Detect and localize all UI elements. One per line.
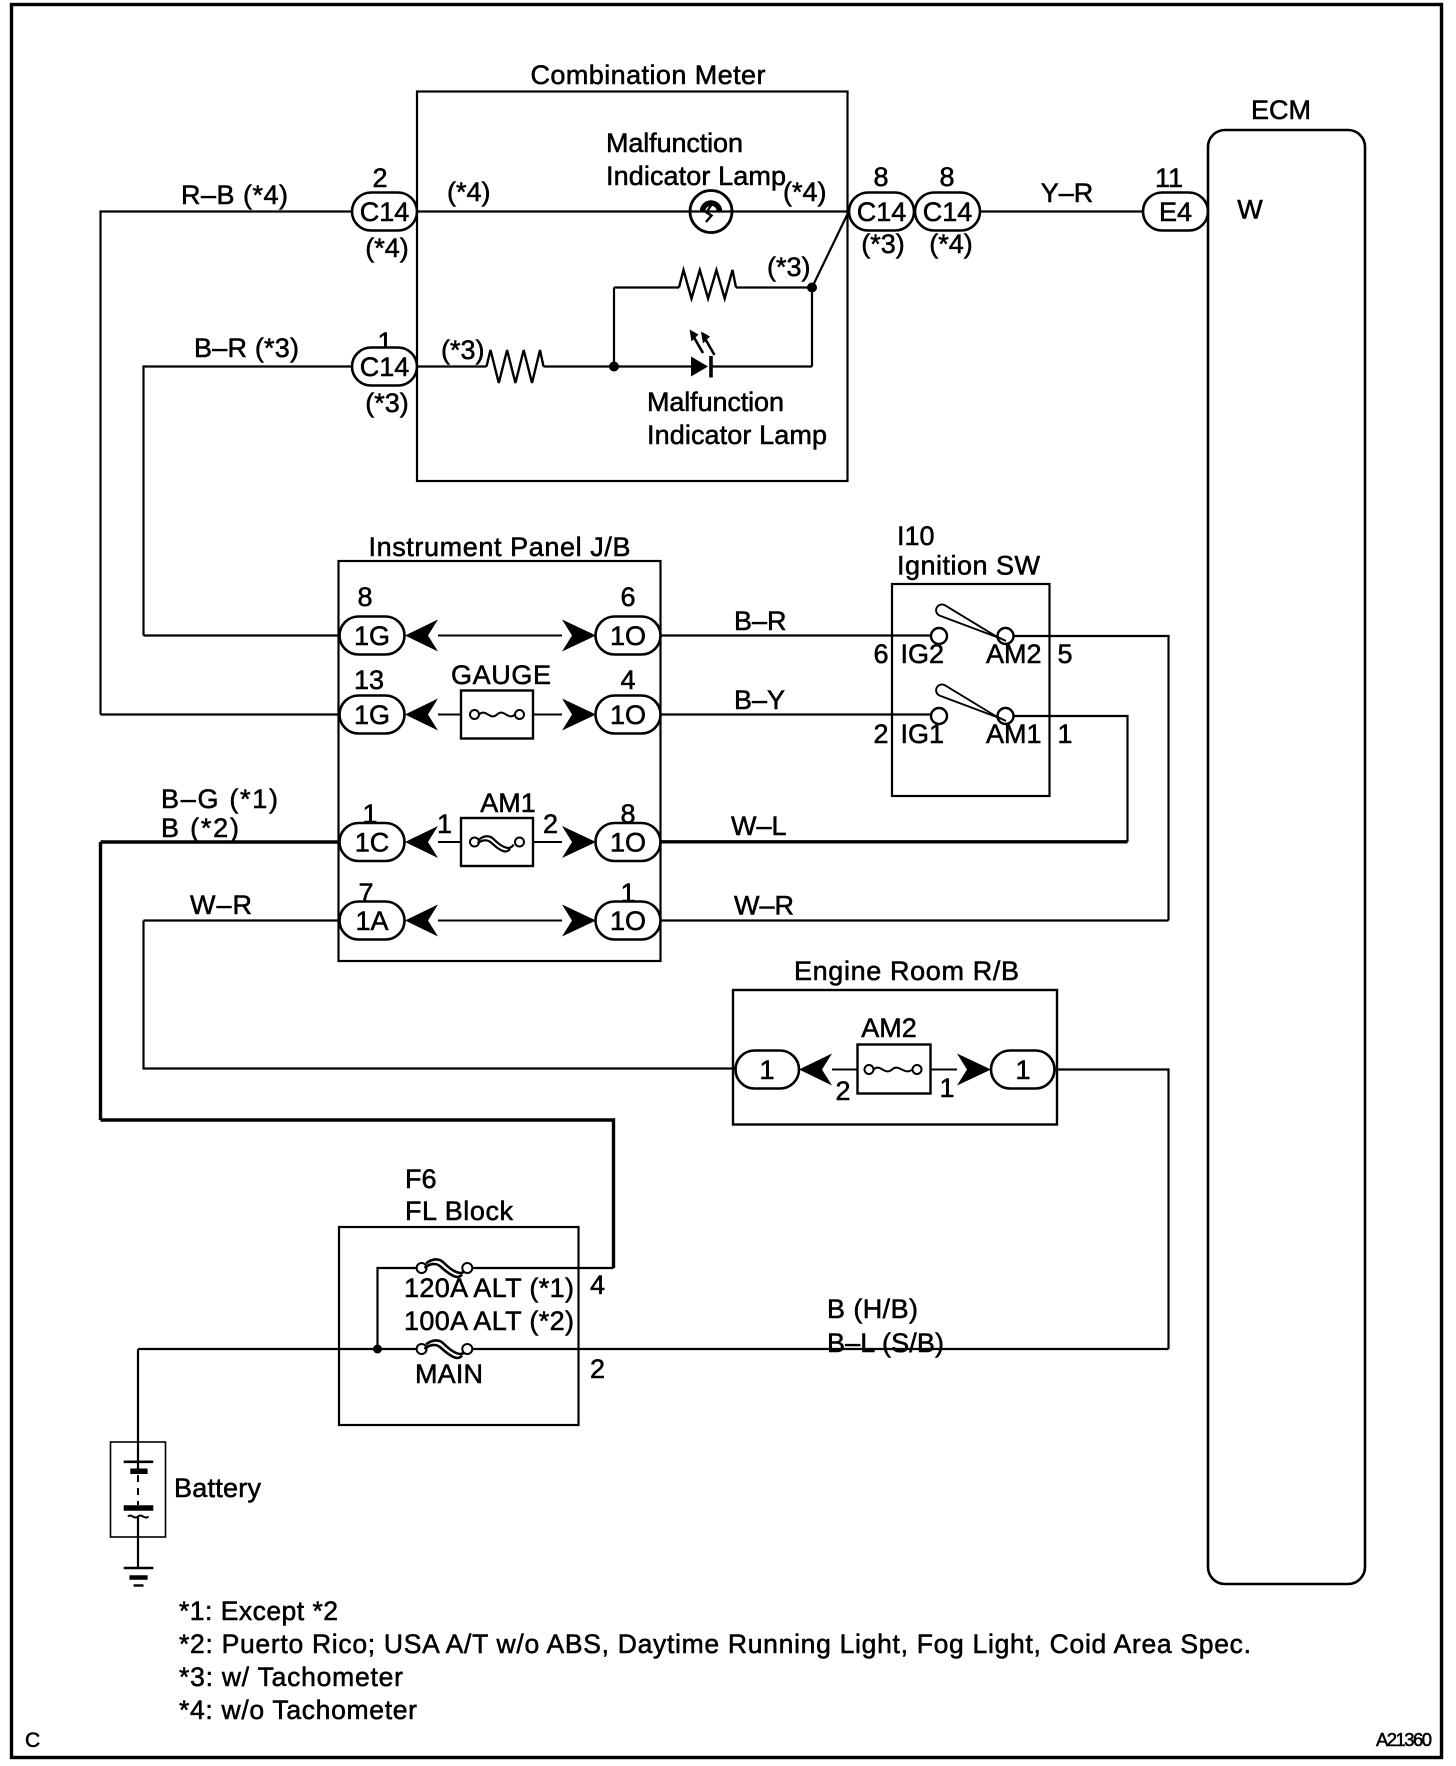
svg-text:E4: E4 [1159, 197, 1192, 227]
ground [124, 1568, 154, 1586]
wire resistor to LED [544, 365, 692, 367]
svg-text:8: 8 [357, 582, 372, 612]
row 3: wires around AM1 fuse [438, 841, 461, 843]
svg-text:C14: C14 [360, 352, 410, 382]
wire MAIN to B-L junction [472, 1348, 1168, 1350]
svg-text:13: 13 [354, 665, 384, 695]
fusible link MAIN [417, 1340, 473, 1358]
instrument panel J/B box [339, 532, 661, 961]
engine room R/B box [733, 956, 1057, 1125]
svg-text:Malfunction: Malfunction [606, 128, 743, 158]
wire row3 right W-L (bold) [661, 840, 1128, 843]
connector E4 pin 11 [1143, 193, 1208, 231]
fusible link AM1 [437, 788, 558, 866]
svg-text:*3: w/ Tachometer: *3: w/ Tachometer [179, 1662, 403, 1692]
svg-text:AM1: AM1 [986, 719, 1042, 749]
arrow left row4 [405, 905, 438, 937]
connector 1G pin 13 [340, 696, 405, 734]
svg-text:2: 2 [543, 809, 558, 839]
connector 1G pin 8 [340, 617, 405, 655]
svg-text:C14: C14 [923, 197, 973, 227]
svg-text:4: 4 [590, 1270, 605, 1300]
arrow right row3 [562, 826, 596, 858]
connector 1 (left) [736, 1051, 800, 1089]
svg-text:1O: 1O [610, 621, 646, 651]
wire row1 right B-R to ignition SW [661, 634, 932, 636]
svg-text:*4: w/o Tachometer: *4: w/o Tachometer [179, 1695, 417, 1725]
wire W-R down to engine room R/B [144, 921, 736, 1069]
lamp bulb symbol (MIL *4) [690, 191, 732, 233]
wire R-B row (left feed to C14 pin 2) [101, 212, 353, 715]
wire vertical to parallel branch (left) [613, 288, 615, 367]
svg-text:2: 2 [835, 1076, 850, 1106]
wire lamp row inside meter [417, 210, 849, 212]
svg-text:IG1: IG1 [901, 719, 945, 749]
resistor (parallel bypass) [679, 270, 736, 299]
svg-text:(*3): (*3) [767, 252, 811, 282]
wire row2 right B-Y to ignition SW [661, 713, 932, 715]
svg-text:11: 11 [1155, 163, 1183, 193]
svg-text:FL Block: FL Block [405, 1196, 514, 1226]
battery [111, 1442, 166, 1568]
svg-text:1O: 1O [610, 700, 646, 730]
svg-text:2: 2 [590, 1354, 605, 1384]
contact AM2 [998, 628, 1014, 644]
wire B-R row (left feed to C14 pin 1) [144, 367, 353, 636]
svg-text:Instrument Panel J/B: Instrument Panel J/B [369, 532, 631, 562]
svg-text:Battery: Battery [174, 1473, 262, 1503]
svg-text:1: 1 [939, 1073, 954, 1103]
wire into resistor row [417, 365, 487, 367]
svg-text:C14: C14 [857, 197, 907, 227]
arrow right row4 [562, 905, 596, 937]
svg-text:6: 6 [620, 582, 635, 612]
svg-text:5: 5 [1057, 639, 1072, 669]
svg-text:Y–R: Y–R [1041, 178, 1094, 208]
wire row2 left exit [101, 713, 340, 715]
svg-text:Indicator Lamp: Indicator Lamp [606, 161, 786, 191]
junction node [609, 362, 619, 372]
connector 1O pin 8 [596, 823, 661, 861]
wire row4 left exit [144, 919, 340, 921]
svg-text:(*3): (*3) [861, 229, 905, 259]
fuse AM2 [858, 1013, 931, 1094]
contact IG2 [931, 628, 947, 644]
svg-text:1C: 1C [355, 828, 390, 858]
wire row1 left exit [144, 634, 340, 636]
svg-text:1: 1 [1015, 1055, 1030, 1085]
svg-text:(*3): (*3) [441, 335, 485, 365]
svg-text:B–L (S/B): B–L (S/B) [827, 1328, 944, 1358]
svg-text:1A: 1A [355, 906, 388, 936]
label Malfunction Indicator Lamp (bottom) [647, 387, 827, 450]
switch lever AM2-IG2 [936, 604, 1006, 641]
svg-text:F6: F6 [405, 1164, 437, 1194]
arrow left [799, 1054, 832, 1086]
arrow left row1 [405, 620, 438, 652]
wire AM1 contact down to W-L [1014, 716, 1128, 842]
svg-text:MAIN: MAIN [415, 1359, 483, 1389]
junction node MAIN/ALT [373, 1345, 382, 1354]
LED malfunction indicator lamp (*3) [690, 330, 715, 378]
svg-text:8: 8 [873, 162, 888, 192]
svg-text:120A ALT (*1): 120A ALT (*1) [404, 1273, 574, 1303]
svg-text:2: 2 [873, 719, 888, 749]
ECM box [1208, 95, 1365, 1584]
label Malfunction Indicator Lamp (top) [606, 128, 786, 191]
svg-text:Malfunction: Malfunction [647, 387, 784, 417]
connector 1 (right) [991, 1051, 1055, 1089]
svg-text:Combination Meter: Combination Meter [531, 60, 766, 90]
wire AM2 contact down to W-R [1014, 636, 1169, 921]
svg-text:1: 1 [759, 1055, 774, 1085]
connector C14 pin 1 [352, 348, 417, 386]
wire vertical right branch [811, 288, 813, 367]
svg-text:A21360: A21360 [1376, 1729, 1432, 1750]
row 1: wire 1G-1O internal [438, 635, 562, 637]
svg-text:(*4): (*4) [929, 229, 973, 259]
wire right exit down to B-L feed [1055, 1070, 1169, 1350]
connector C14 pin 2 [352, 193, 417, 231]
arrow left row2 [405, 699, 438, 731]
wire LED to right branch [711, 365, 812, 367]
svg-text:1G: 1G [354, 700, 390, 730]
svg-text:B–G (*1): B–G (*1) [161, 784, 278, 814]
svg-text:W–R: W–R [190, 890, 252, 920]
connector 1O pin 1 [596, 902, 661, 940]
FL block F6 [339, 1164, 579, 1425]
wire B feed horizontal to FL block (bold) [101, 1120, 614, 1268]
svg-text:AM1: AM1 [480, 788, 536, 818]
svg-text:(*4): (*4) [783, 177, 827, 207]
svg-text:6: 6 [873, 639, 888, 669]
connector C14 pin 8 (*4) [915, 193, 980, 231]
svg-text:(*4): (*4) [365, 233, 409, 263]
svg-text:Indicator Lamp: Indicator Lamp [647, 420, 827, 450]
resistor R (series, *3) [487, 350, 544, 383]
svg-text:*2: Puerto Rico; USA A/T w/o A: *2: Puerto Rico; USA A/T w/o ABS, Daytim… [179, 1629, 1251, 1659]
combination meter box [417, 60, 848, 481]
arrow right row1 [562, 620, 596, 652]
svg-text:B–R: B–R [734, 606, 787, 636]
svg-text:AM2: AM2 [986, 639, 1042, 669]
ignition SW I10 box [892, 521, 1050, 796]
svg-text:I10: I10 [897, 521, 935, 551]
contact IG1 [931, 708, 947, 724]
svg-text:B–R (*3): B–R (*3) [194, 333, 299, 363]
switch lever AM1-IG1 [936, 684, 1006, 721]
wire parallel branch top right [736, 286, 812, 288]
svg-text:4: 4 [620, 665, 635, 695]
svg-text:IG2: IG2 [901, 639, 945, 669]
wire row3 left exit (B feed, bold) [101, 840, 340, 843]
arrow right [957, 1054, 991, 1086]
svg-text:B–Y: B–Y [734, 685, 785, 715]
wire diagonal node to C14 pin 8 [812, 213, 848, 288]
svg-text:GAUGE: GAUGE [451, 660, 551, 690]
svg-text:1O: 1O [610, 906, 646, 936]
svg-text:Ignition SW: Ignition SW [897, 551, 1041, 581]
connector C14 pin 8 (*3) [849, 193, 914, 231]
svg-text:1O: 1O [610, 828, 646, 858]
svg-text:1G: 1G [354, 621, 390, 651]
wire battery feed to MAIN [138, 1348, 417, 1350]
connector 1O pin 4 [596, 696, 661, 734]
svg-text:1: 1 [1057, 719, 1072, 749]
wire vertical B feed (bold) [99, 842, 102, 1120]
row 4: wire 1A-1O internal [438, 920, 562, 922]
svg-text:B (H/B): B (H/B) [827, 1294, 918, 1324]
svg-text:R–B (*4): R–B (*4) [181, 180, 288, 210]
svg-text:C14: C14 [360, 197, 410, 227]
svg-text:8: 8 [939, 162, 954, 192]
svg-text:ECM: ECM [1251, 95, 1311, 125]
wire parallel branch top left [614, 286, 679, 288]
svg-text:Engine Room R/B: Engine Room R/B [794, 956, 1019, 986]
connector 1A pin 7 [340, 902, 405, 940]
svg-text:(*3): (*3) [365, 388, 409, 418]
svg-text:B (*2): B (*2) [161, 813, 239, 843]
wire Y-R [980, 210, 1143, 212]
connector 1O pin 6 [596, 617, 661, 655]
arrow left row3 [405, 826, 438, 858]
svg-text:(*4): (*4) [447, 177, 491, 207]
connector 1C pin 1 [340, 823, 405, 861]
arrow right row2 [562, 699, 596, 731]
wire to AM2 fuse [832, 1069, 858, 1071]
svg-text:AM2: AM2 [861, 1013, 917, 1043]
fusible link 120A/100A ALT [378, 1259, 614, 1349]
svg-text:C: C [25, 1729, 40, 1752]
contact AM1 [998, 708, 1014, 724]
wire row4 right W-R [661, 919, 1169, 921]
fuse GAUGE [451, 660, 551, 739]
svg-text:W–R: W–R [734, 891, 794, 921]
node (*3) junction to C14 pin 8 [807, 283, 817, 293]
svg-text:W: W [1237, 195, 1263, 225]
svg-text:W–L: W–L [731, 811, 787, 841]
svg-text:2: 2 [372, 163, 387, 193]
wire AM2 to arrow [931, 1069, 958, 1071]
svg-text:1: 1 [437, 809, 452, 839]
row 2: wires around GAUGE fuse [438, 714, 461, 716]
svg-text:*1: Except *2: *1: Except *2 [179, 1596, 338, 1626]
wire battery to MAIN row [137, 1349, 139, 1469]
svg-text:100A ALT (*2): 100A ALT (*2) [404, 1306, 574, 1336]
